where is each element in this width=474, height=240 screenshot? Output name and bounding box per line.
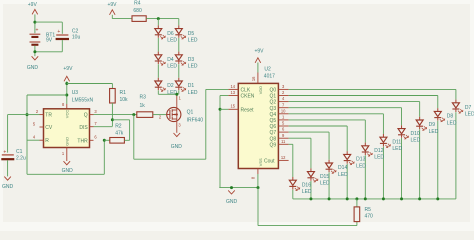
svg-text:GND: GND: [2, 184, 14, 190]
svg-text:680: 680: [133, 8, 142, 14]
svg-text:D10: D10: [411, 131, 420, 137]
svg-text:LED: LED: [411, 138, 421, 144]
svg-text:THR: THR: [77, 138, 88, 144]
svg-text:Q5: Q5: [270, 118, 277, 124]
svg-text:LED: LED: [447, 120, 457, 126]
svg-text:D11: D11: [392, 139, 401, 145]
svg-text:CV: CV: [45, 125, 53, 131]
svg-text:11: 11: [281, 139, 286, 144]
svg-text:LED: LED: [188, 38, 198, 44]
svg-text:TR: TR: [45, 113, 52, 119]
svg-text:1k: 1k: [140, 103, 146, 109]
svg-text:47k: 47k: [115, 130, 124, 136]
svg-text:GND: GND: [64, 137, 69, 146]
svg-text:D2: D2: [167, 83, 174, 89]
svg-text:Q: Q: [84, 113, 88, 119]
svg-text:R2: R2: [115, 124, 122, 130]
svg-text:LED: LED: [392, 146, 402, 152]
svg-text:LED: LED: [429, 129, 439, 135]
svg-text:R: R: [45, 138, 49, 144]
svg-text:VSS: VSS: [258, 158, 263, 166]
svg-text:D1: D1: [188, 83, 195, 89]
svg-text:+9V: +9V: [254, 48, 264, 54]
svg-text:GND: GND: [171, 144, 183, 150]
svg-text:4017: 4017: [264, 74, 275, 80]
svg-text:+: +: [35, 28, 38, 34]
svg-text:LED: LED: [167, 38, 177, 44]
svg-text:LED: LED: [167, 64, 177, 70]
svg-text:VCC: VCC: [64, 110, 69, 119]
svg-text:LED: LED: [302, 189, 312, 195]
svg-text:10k: 10k: [120, 97, 129, 103]
svg-text:IRF640: IRF640: [187, 117, 204, 123]
svg-text:+9V: +9V: [107, 2, 117, 8]
svg-text:R3: R3: [140, 94, 147, 100]
svg-text:10: 10: [281, 108, 286, 113]
svg-text:GND: GND: [27, 65, 39, 71]
svg-text:LED: LED: [188, 90, 198, 96]
svg-text:Q7: Q7: [270, 130, 277, 136]
svg-text:D12: D12: [374, 148, 383, 154]
svg-text:LED: LED: [320, 181, 330, 187]
svg-text:470: 470: [365, 213, 374, 219]
svg-text:16: 16: [251, 76, 256, 81]
svg-text:10u: 10u: [72, 34, 81, 40]
svg-text:Reset: Reset: [241, 107, 255, 113]
svg-text:D7: D7: [465, 105, 472, 111]
svg-text:Q8: Q8: [270, 136, 277, 142]
svg-text:VDD: VDD: [258, 86, 263, 95]
svg-text:R5: R5: [365, 207, 372, 213]
svg-text:Q9: Q9: [270, 142, 277, 148]
svg-text:Q0: Q0: [270, 88, 277, 94]
svg-text:12: 12: [281, 155, 286, 160]
svg-text:13: 13: [231, 90, 236, 95]
svg-text:+: +: [57, 29, 60, 35]
svg-text:DIS: DIS: [79, 125, 88, 131]
svg-text:LED: LED: [374, 155, 384, 161]
svg-text:D9: D9: [429, 122, 436, 128]
svg-text:GND: GND: [226, 199, 238, 205]
svg-text:LED: LED: [465, 112, 474, 118]
svg-text:CLK: CLK: [241, 88, 251, 94]
svg-text:R4: R4: [134, 1, 141, 7]
svg-text:GND: GND: [62, 168, 74, 174]
svg-text:D3: D3: [188, 57, 195, 63]
svg-text:D8: D8: [447, 114, 454, 120]
svg-text:D15: D15: [320, 174, 329, 180]
svg-text:Q1: Q1: [187, 110, 194, 116]
svg-text:LM555xN: LM555xN: [72, 97, 94, 103]
svg-text:CKEN: CKEN: [241, 94, 255, 100]
svg-text:D16: D16: [302, 182, 311, 188]
svg-text:9V: 9V: [46, 38, 53, 44]
svg-text:+9V: +9V: [28, 2, 38, 8]
svg-text:U2: U2: [264, 66, 271, 72]
svg-text:Q1: Q1: [270, 94, 277, 100]
svg-text:C1: C1: [16, 149, 23, 155]
svg-text:U3: U3: [72, 90, 79, 96]
svg-text:D14: D14: [338, 165, 347, 171]
svg-text:R1: R1: [120, 90, 127, 96]
svg-text:D13: D13: [356, 157, 365, 163]
svg-text:15: 15: [231, 104, 236, 109]
svg-text:LED: LED: [338, 172, 348, 178]
svg-text:Q6: Q6: [270, 124, 277, 130]
svg-text:Q2: Q2: [270, 100, 277, 106]
svg-text:D5: D5: [188, 31, 195, 37]
svg-text:2.2u: 2.2u: [16, 156, 26, 162]
svg-text:LED: LED: [356, 163, 366, 169]
svg-text:Q3: Q3: [270, 106, 277, 112]
svg-text:D4: D4: [167, 57, 174, 63]
svg-text:+9V: +9V: [63, 66, 73, 72]
svg-text:D6: D6: [167, 31, 174, 37]
svg-text:LED: LED: [188, 64, 198, 70]
svg-text:14: 14: [231, 84, 236, 89]
svg-text:Q4: Q4: [270, 112, 277, 118]
svg-text:Cout: Cout: [264, 159, 275, 165]
